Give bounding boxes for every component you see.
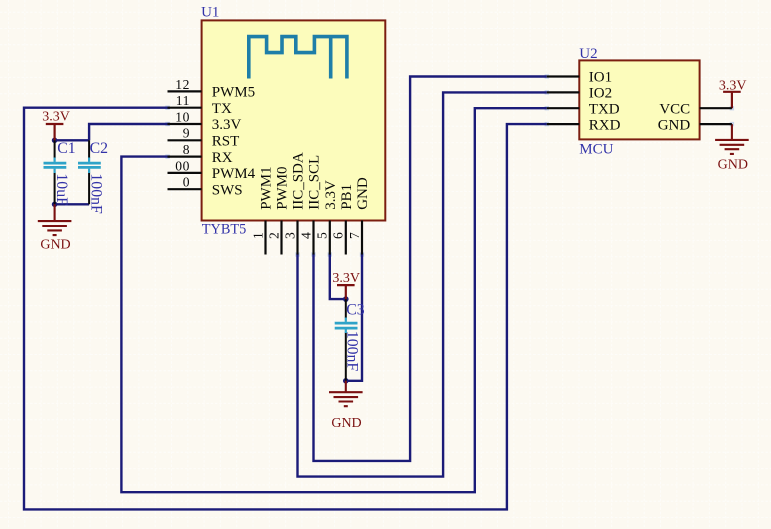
svg-text:3.3V: 3.3V	[719, 78, 747, 93]
svg-text:PB1: PB1	[339, 184, 355, 210]
svg-text:3: 3	[282, 232, 297, 239]
svg-text:U2: U2	[579, 46, 597, 62]
svg-text:100nF: 100nF	[343, 331, 360, 372]
svg-text:PWM4: PWM4	[212, 166, 256, 182]
svg-text:2: 2	[266, 232, 281, 239]
svg-text:RXD: RXD	[589, 117, 621, 133]
svg-text:1: 1	[250, 232, 265, 239]
svg-text:100nF: 100nF	[87, 173, 104, 214]
svg-text:3.3V: 3.3V	[332, 271, 360, 286]
svg-text:MCU: MCU	[579, 142, 613, 158]
svg-text:IIC_SDA: IIC_SDA	[291, 152, 307, 210]
svg-text:RX: RX	[212, 150, 233, 166]
svg-text:PWM5: PWM5	[212, 85, 255, 101]
svg-text:6: 6	[331, 232, 346, 239]
svg-text:GND: GND	[718, 157, 748, 172]
svg-text:11: 11	[176, 93, 191, 108]
svg-text:GND: GND	[355, 177, 371, 210]
svg-text:0: 0	[183, 175, 191, 190]
svg-text:TXD: TXD	[589, 101, 620, 117]
svg-text:IO1: IO1	[589, 70, 612, 86]
svg-text:12: 12	[175, 77, 190, 92]
svg-text:GND: GND	[331, 416, 361, 431]
svg-text:GND: GND	[40, 238, 70, 253]
svg-text:PWM1: PWM1	[259, 166, 275, 209]
svg-text:C1: C1	[57, 140, 75, 157]
svg-text:3.3V: 3.3V	[42, 109, 70, 124]
svg-text:RST: RST	[212, 134, 240, 150]
svg-text:00: 00	[175, 158, 190, 173]
svg-text:5: 5	[315, 232, 330, 239]
svg-text:C3: C3	[346, 302, 365, 319]
svg-text:C2: C2	[90, 140, 109, 157]
svg-text:9: 9	[183, 126, 191, 141]
svg-text:8: 8	[183, 142, 191, 157]
svg-text:TYBT5: TYBT5	[202, 222, 246, 238]
svg-text:3.3V: 3.3V	[323, 180, 339, 210]
svg-text:IO2: IO2	[589, 86, 612, 102]
svg-text:PWM0: PWM0	[275, 166, 291, 209]
svg-text:10: 10	[175, 109, 190, 124]
svg-text:4: 4	[298, 232, 313, 239]
svg-text:3.3V: 3.3V	[212, 117, 242, 133]
svg-text:VCC: VCC	[659, 101, 690, 117]
svg-text:IIC_SCL: IIC_SCL	[307, 155, 323, 210]
svg-text:SWS: SWS	[212, 182, 243, 198]
svg-text:7: 7	[347, 232, 362, 239]
svg-text:U1: U1	[201, 4, 219, 20]
svg-text:10uF: 10uF	[53, 173, 70, 206]
svg-text:TX: TX	[212, 101, 232, 117]
svg-text:GND: GND	[658, 117, 691, 133]
